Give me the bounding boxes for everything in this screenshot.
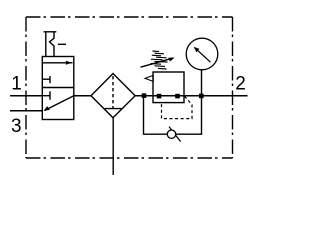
svg-text:1: 1: [11, 73, 22, 94]
svg-text:2: 2: [235, 73, 246, 94]
svg-text:3: 3: [11, 116, 22, 137]
